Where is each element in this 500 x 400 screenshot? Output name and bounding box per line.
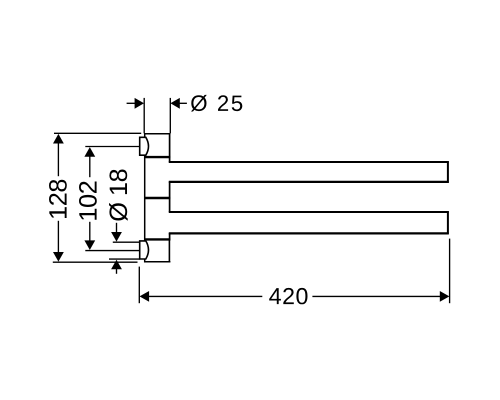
dim420 left extension line	[138, 267, 140, 304]
dim18 bottom extension line	[109, 258, 140, 260]
hub right edge middle segment	[169, 181, 171, 212]
hub middle joint line	[144, 197, 170, 199]
dim128 label	[49, 180, 67, 218]
dim128 bottom extension line	[53, 261, 138, 263]
dim25 right extension line	[169, 98, 171, 133]
dim25 right arrowhead	[170, 98, 179, 109]
upper bar top edge	[169, 161, 449, 163]
hub right edge lower segment	[169, 233, 171, 240]
dim18 line above arrow	[116, 223, 118, 233]
dim420 right extension line	[449, 239, 451, 304]
lower bar right end	[447, 211, 449, 234]
dim102 line lower segment	[89, 222, 91, 242]
top rosette top edge	[144, 133, 170, 135]
dim102 line upper segment	[89, 156, 91, 178]
dim128 top arrowhead	[53, 134, 64, 144]
bottom rosette bottom edge	[144, 261, 170, 263]
dim102 label	[79, 182, 97, 220]
dim102 top arrowhead	[84, 147, 95, 157]
dim102 top extension line	[85, 146, 140, 148]
lower bar top edge	[169, 211, 449, 213]
dim420 line left segment	[148, 295, 262, 297]
hub right edge upper segment	[169, 133, 171, 162]
bottom rosette top edge	[144, 238, 170, 240]
dim420 line right segment	[312, 295, 440, 297]
dim25 left tail	[127, 102, 136, 104]
dim18 top extension line	[113, 241, 140, 243]
dim102 bottom extension line	[85, 250, 140, 252]
dim128 top extension line	[54, 132, 141, 134]
dim25 right tail	[179, 102, 187, 104]
wall bracket left edge	[144, 133, 146, 262]
upper bar right end	[447, 161, 449, 183]
dim420 left arrowhead	[140, 291, 150, 302]
dim102 bottom arrowhead	[84, 240, 95, 250]
dim25 left arrowhead	[135, 98, 144, 109]
dim420 right arrowhead	[440, 291, 450, 302]
dim18 line below arrow	[116, 268, 118, 274]
dim18 label	[109, 170, 128, 221]
bottom swivel cap	[140, 241, 149, 259]
dim25 left extension line	[143, 98, 145, 133]
dim25 label	[191, 95, 242, 112]
dim18 lower arrowhead pointing up	[111, 260, 122, 270]
lower bar bottom edge	[169, 232, 449, 234]
dim420 label	[269, 288, 307, 304]
top swivel cap	[140, 137, 149, 155]
dim128 line lower segment	[57, 221, 59, 253]
top rosette bottom edge	[144, 156, 170, 158]
dim18 upper arrowhead pointing down	[111, 232, 122, 242]
dim128 bottom arrowhead	[53, 252, 64, 262]
dim128 line upper segment	[57, 143, 59, 177]
upper bar bottom edge	[169, 181, 449, 183]
bottom rosette right edge	[168, 240, 170, 262]
